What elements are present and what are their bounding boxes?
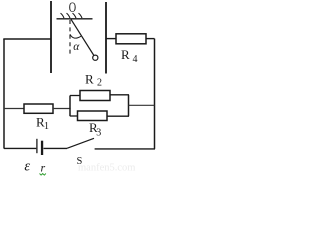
svg-text:ε: ε xyxy=(24,158,30,174)
wire left rail xyxy=(3,39,5,149)
svg-text:manfen5.com: manfen5.com xyxy=(78,163,135,174)
ceiling hatch ticks xyxy=(61,13,83,18)
resistor R4 box xyxy=(116,34,146,44)
switch blade xyxy=(67,138,94,148)
wire junction to R2 xyxy=(70,95,80,97)
wire R3 to right junction xyxy=(107,115,129,117)
wire junction to R3 xyxy=(70,115,78,117)
capacitor right plate xyxy=(105,2,107,74)
svg-text:4: 4 xyxy=(133,54,138,65)
svg-text:S: S xyxy=(77,156,83,167)
svg-text:R: R xyxy=(85,72,94,87)
wire right rail xyxy=(154,39,156,149)
wire switch to right rail xyxy=(95,148,155,150)
wire R1 to junction xyxy=(53,108,71,110)
svg-text:α: α xyxy=(73,41,80,53)
wire left rail to R1 xyxy=(4,108,24,110)
battery short thick plate xyxy=(41,141,43,155)
svg-text:1: 1 xyxy=(44,121,49,132)
right junction bar xyxy=(128,95,130,116)
wire bottom left xyxy=(4,147,36,149)
battery long thin plate xyxy=(36,139,38,153)
wire R2 to right junction xyxy=(110,94,129,96)
ceiling line xyxy=(57,18,93,20)
pendulum dashed vertical line xyxy=(69,20,71,57)
pendulum ball xyxy=(93,55,98,60)
resistor R1 box xyxy=(24,104,53,113)
wire battery to switch xyxy=(44,147,68,149)
wire top-left to capacitor plate xyxy=(3,38,51,40)
wire R4 to right rail xyxy=(146,38,155,40)
capacitor left plate xyxy=(50,1,52,73)
spellcheck squiggle under r xyxy=(40,174,46,176)
resistor R2 box xyxy=(80,91,110,101)
svg-text:r: r xyxy=(41,160,46,174)
svg-text:R: R xyxy=(121,47,130,62)
wire right junction to right rail xyxy=(129,104,155,106)
angle arc xyxy=(70,34,81,38)
resistor R3 box xyxy=(78,111,108,121)
left junction bar xyxy=(69,96,71,117)
pendulum string xyxy=(71,19,94,56)
wire right plate to R4 xyxy=(106,38,116,40)
svg-text:2: 2 xyxy=(97,78,102,89)
svg-text:3: 3 xyxy=(96,128,101,139)
